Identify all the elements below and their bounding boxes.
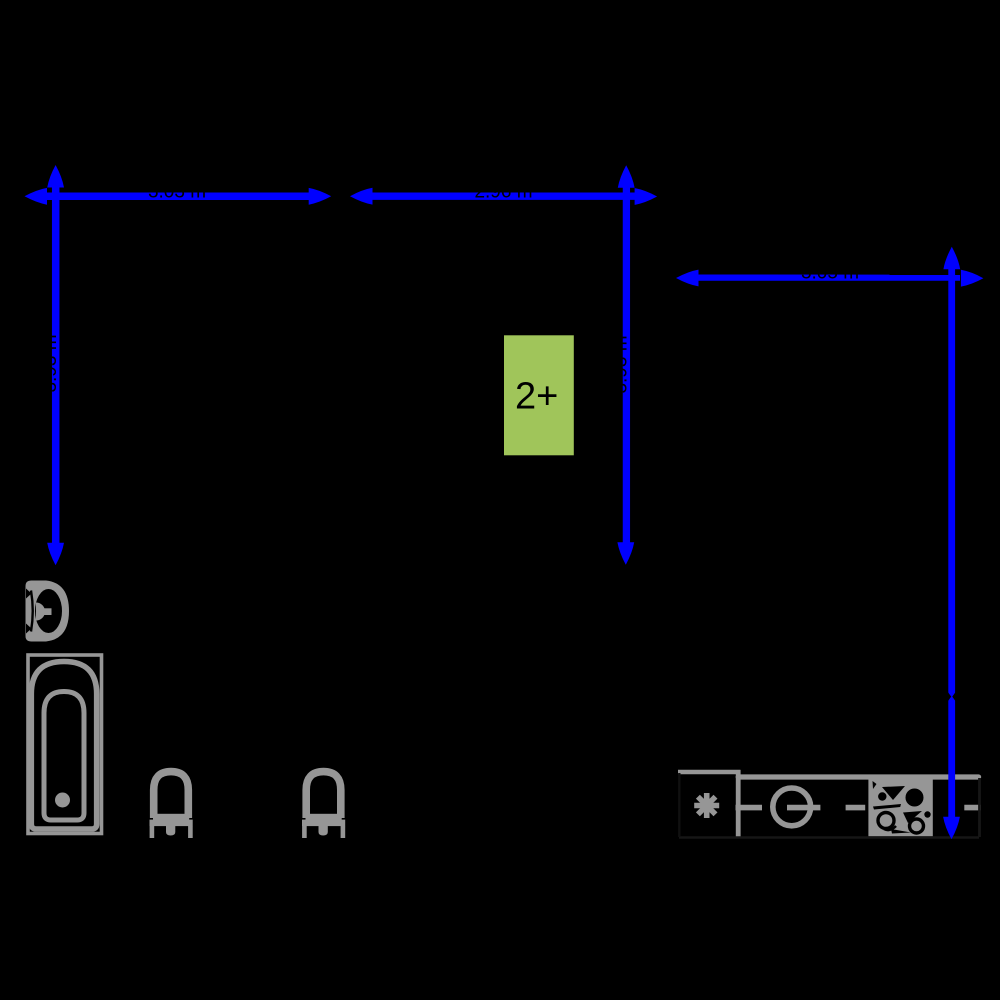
- dimension line V1: [52, 186, 60, 544]
- toilet tank inner line: [31, 591, 33, 632]
- chair 1 right leg: [188, 826, 193, 838]
- H1 left arrowhead: [25, 188, 48, 205]
- kitchen faint left edge: [678, 773, 680, 837]
- svg-text:2.96 m: 2.96 m: [474, 181, 532, 202]
- room capacity green box: [504, 335, 574, 455]
- dimension line V3: [948, 268, 955, 817]
- H2 right arrowhead: [635, 188, 658, 205]
- kitchen sink circle: [773, 788, 811, 826]
- toilet corner notches: [26, 589, 32, 599]
- bathtub drain: [55, 793, 70, 808]
- chair 1 seat closing piece: [153, 814, 189, 821]
- kitchen counter mid dash 2: [787, 805, 820, 811]
- svg-text:3.05 m: 3.05 m: [801, 263, 859, 284]
- svg-text:3.93 m: 3.93 m: [611, 335, 632, 393]
- bathtub outer rect: [28, 655, 102, 834]
- V1 down arrowhead: [47, 543, 64, 566]
- kitchen faint bottom edge: [679, 836, 979, 838]
- dimension line H1: [45, 193, 310, 201]
- stove burner cutouts: [873, 781, 931, 834]
- chair 1 center tab: [166, 826, 175, 836]
- chair 1 seat bar: [150, 820, 193, 827]
- kitchen counter mid dash 1: [736, 805, 763, 811]
- kitchen counter mid dash 4: [964, 805, 981, 811]
- chair 1 left leg: [150, 826, 155, 838]
- V3 taper pinch notch: [948, 692, 951, 701]
- V2 up arrowhead: [618, 165, 635, 188]
- chair 2: [302, 772, 345, 838]
- svg-text:2+: 2+: [515, 376, 558, 418]
- H3 left arrowhead: [676, 270, 699, 287]
- V2 down arrowhead: [617, 542, 634, 565]
- dimension line H2: [371, 192, 635, 199]
- V1 up arrowhead: [47, 165, 64, 188]
- dimension line V2: [623, 187, 630, 544]
- chair 1 backrest: [150, 772, 193, 838]
- V3 up arrowhead: [943, 247, 960, 270]
- kitchen stove body: [868, 775, 932, 837]
- svg-text:3.03 m: 3.03 m: [148, 181, 206, 202]
- toilet body: [26, 581, 70, 642]
- dimension line H3: [697, 275, 960, 281]
- toilet seat hinge: [36, 603, 45, 621]
- H2 left arrowhead: [350, 188, 373, 205]
- kitchen fridge top edge: [678, 770, 741, 774]
- toilet bowl hole: [35, 589, 62, 633]
- kitchen faint right edge: [978, 778, 981, 837]
- kitchen counter mid dash 3: [846, 805, 866, 811]
- svg-text:3.93 m: 3.93 m: [40, 334, 61, 392]
- kitchen fridge divider: [736, 770, 741, 837]
- bathtub rim: [31, 662, 96, 830]
- V3 down arrowhead: [943, 817, 960, 840]
- H3 right arrowhead: [961, 270, 984, 287]
- kitchen counter top edge: [738, 774, 978, 779]
- H1 right arrowhead: [309, 188, 332, 205]
- bathtub basin: [44, 692, 84, 821]
- kitchen freezer asterisk: [694, 793, 719, 818]
